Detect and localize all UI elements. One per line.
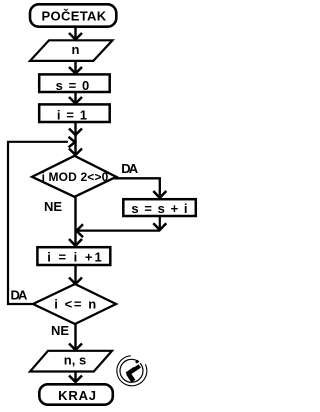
wire loop-back from i<=n (left side) <box>8 137 75 304</box>
wire junction to decision 1 <box>69 142 82 156</box>
wire i=1 to junction <box>69 123 82 142</box>
svg-text:i = 1: i = 1 <box>57 107 88 122</box>
svg-text:s = s + i: s = s + i <box>131 201 188 216</box>
svg-text:n, s: n, s <box>64 353 86 368</box>
svg-text:n: n <box>72 42 80 57</box>
svg-text:KRAJ: KRAJ <box>58 388 97 403</box>
wire s=s+i down to return line <box>153 217 166 231</box>
svg-text:NE: NE <box>44 199 62 214</box>
decision i MOD 2<>0 <box>32 156 116 197</box>
svg-text:POČETAK: POČETAK <box>41 9 106 24</box>
svg-text:i = i +1: i = i +1 <box>47 250 103 265</box>
svg-text:s = 0: s = 0 <box>56 78 91 93</box>
process i = i + 1 <box>37 247 110 265</box>
wire DA branch to s=s+i <box>114 178 166 198</box>
process i = 1 <box>39 104 110 122</box>
decision i <= n <box>33 284 116 324</box>
wire s=0 to i=1 <box>69 93 82 104</box>
wire input to s=0 <box>69 61 82 74</box>
wire start to input <box>69 28 82 40</box>
wire return line to main junction <box>76 224 160 237</box>
svg-text:DA: DA <box>121 161 138 176</box>
wire NE branch decision1 to i=i+1 <box>69 197 82 246</box>
wire decision2 to output <box>69 324 82 350</box>
process s = 0 <box>39 74 110 93</box>
svg-text:DA: DA <box>11 288 28 303</box>
svg-text:i <= n: i <= n <box>54 296 98 311</box>
svg-text:i MOD 2<>0: i MOD 2<>0 <box>42 170 109 184</box>
wire i=i+1 to decision 2 <box>69 266 82 285</box>
wire output to KRAJ <box>69 372 82 382</box>
input n (parallelogram) <box>30 40 113 61</box>
svg-text:NE: NE <box>51 323 69 338</box>
process s = s + i <box>123 199 196 216</box>
logo (publisher mark, circled glyph) <box>117 356 147 386</box>
terminal POČETAK <box>30 4 116 26</box>
terminal KRAJ <box>39 384 113 404</box>
output n, s (parallelogram) <box>30 351 112 372</box>
